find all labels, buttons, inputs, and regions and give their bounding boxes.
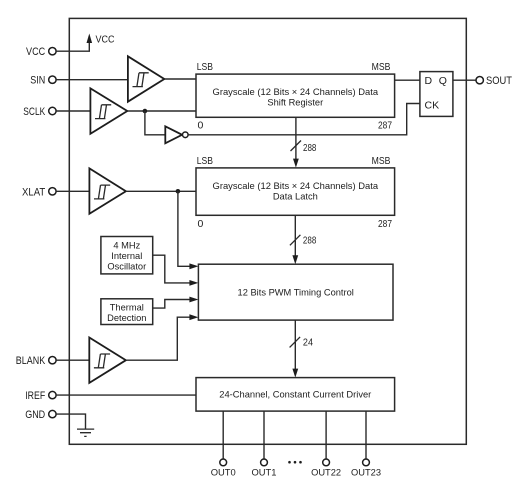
output line OUT23 (365, 411, 367, 459)
svg-text:0: 0 (198, 218, 204, 230)
svg-text:SOUT: SOUT (486, 75, 512, 87)
D flip-flop U1 (420, 72, 453, 117)
pin SOUT circle (476, 77, 483, 84)
svg-text:MSB: MSB (372, 61, 391, 73)
inverter bubble (183, 132, 189, 138)
svg-text:MSB: MSB (372, 155, 391, 167)
wire Q to SOUT (453, 79, 476, 81)
pin BLANK circle (49, 357, 56, 364)
svg-text:24-Channel, Constant Current D: 24-Channel, Constant Current Driver (219, 390, 371, 400)
VCC arrow head (87, 34, 93, 44)
bus slash (290, 337, 301, 348)
svg-text:Grayscale (12 Bits × 24 Channe: Grayscale (12 Bits × 24 Channels) Data (213, 181, 379, 191)
ground (77, 429, 94, 436)
svg-text:SCLK: SCLK (23, 106, 45, 118)
svg-text:288: 288 (303, 142, 317, 154)
schmitt buffer SCLK (90, 88, 127, 133)
wire IREF to driver (56, 394, 196, 396)
wire SIN buffer to shift register (164, 78, 196, 80)
svg-text:SIN: SIN (30, 75, 45, 87)
svg-text:Q: Q (439, 75, 447, 87)
svg-text:4 MHz: 4 MHz (113, 240, 140, 250)
PWM timing control box (198, 264, 393, 320)
pin OUT0 circle (220, 459, 227, 466)
bus PWM control to driver (294, 320, 296, 373)
pin OUT1 circle (261, 459, 268, 466)
wire VCC pin to arrow (56, 38, 89, 52)
svg-text:287: 287 (378, 120, 392, 132)
svg-text:D: D (425, 75, 433, 87)
wire BLANK pin to buffer (56, 359, 89, 361)
pin IREF circle (49, 391, 56, 398)
svg-text:LSB: LSB (197, 61, 213, 73)
pin OUT22 circle (323, 459, 330, 466)
oscillator box (101, 237, 153, 274)
svg-text:24: 24 (303, 337, 313, 349)
schmitt buffer SIN (128, 56, 164, 101)
wire XLAT buffer to data latch (126, 190, 196, 192)
inverter (165, 126, 182, 143)
driver box (196, 378, 395, 412)
wire BLANK buffer to PWM control (126, 317, 194, 360)
svg-text:OUT0: OUT0 (211, 466, 236, 477)
output line OUT1 (263, 411, 265, 459)
svg-text:12 Bits PWM Timing Control: 12 Bits PWM Timing Control (238, 287, 354, 297)
svg-text:Internal: Internal (111, 251, 142, 261)
wire inverter to CK (188, 104, 420, 135)
wire thermal to PWM control (153, 300, 195, 309)
wire GND to ground (56, 414, 85, 429)
data latch box (196, 168, 395, 215)
schmitt buffer BLANK (89, 338, 126, 383)
wire XLAT junction to PWM control (178, 191, 194, 266)
junction SCLK node (143, 109, 148, 114)
wire SCLK buffer to shift register (127, 110, 196, 112)
bus shift register to data latch (295, 117, 297, 163)
svg-text:XLAT: XLAT (22, 186, 45, 198)
bus slash (291, 141, 302, 152)
svg-text:Detection: Detection (107, 313, 146, 323)
svg-text:OUT22: OUT22 (311, 466, 341, 477)
svg-text:GND: GND (25, 409, 45, 421)
svg-text:Oscillator: Oscillator (107, 261, 146, 271)
output line OUT22 (325, 411, 327, 459)
svg-text:OUT1: OUT1 (252, 466, 277, 477)
svg-text:287: 287 (378, 218, 392, 230)
pin GND circle (49, 410, 56, 417)
wire SCLK pin to buffer (56, 110, 90, 112)
wire XLAT pin to buffer (56, 190, 89, 192)
wire SIN pin to buffer (56, 79, 128, 81)
junction XLAT node (176, 189, 181, 194)
svg-text:OUT23: OUT23 (351, 466, 381, 477)
pin XLAT circle (49, 188, 56, 195)
output line OUT0 (222, 411, 224, 459)
wire MSB to D input (395, 79, 420, 81)
svg-text:288: 288 (303, 235, 317, 247)
pin VCC circle (49, 48, 56, 55)
svg-text:0: 0 (198, 120, 204, 132)
shift register box (196, 74, 395, 117)
svg-text:LSB: LSB (197, 155, 213, 167)
svg-text:Grayscale (12 Bits × 24 Channe: Grayscale (12 Bits × 24 Channels) Data (213, 87, 379, 97)
pin OUT23 circle (363, 459, 370, 466)
schmitt buffer XLAT (89, 168, 126, 213)
bus data latch to PWM control (294, 215, 296, 260)
outer border (69, 18, 466, 444)
pin SCLK circle (49, 107, 56, 114)
thermal detection box (101, 299, 153, 325)
ellipsis dots (288, 461, 291, 464)
svg-text:Shift Register: Shift Register (267, 97, 323, 107)
svg-text:BLANK: BLANK (16, 355, 46, 367)
pin SIN circle (49, 76, 56, 83)
svg-text:Data Latch: Data Latch (273, 192, 318, 202)
wire SCLK junction to inverter (145, 111, 165, 135)
bus slash (290, 235, 301, 246)
wire oscillator to PWM control (153, 255, 195, 283)
svg-text:VCC: VCC (96, 34, 115, 46)
svg-text:Thermal: Thermal (110, 302, 144, 312)
svg-text:VCC: VCC (26, 46, 45, 58)
svg-text:CK: CK (425, 99, 440, 111)
svg-text:IREF: IREF (25, 390, 45, 402)
